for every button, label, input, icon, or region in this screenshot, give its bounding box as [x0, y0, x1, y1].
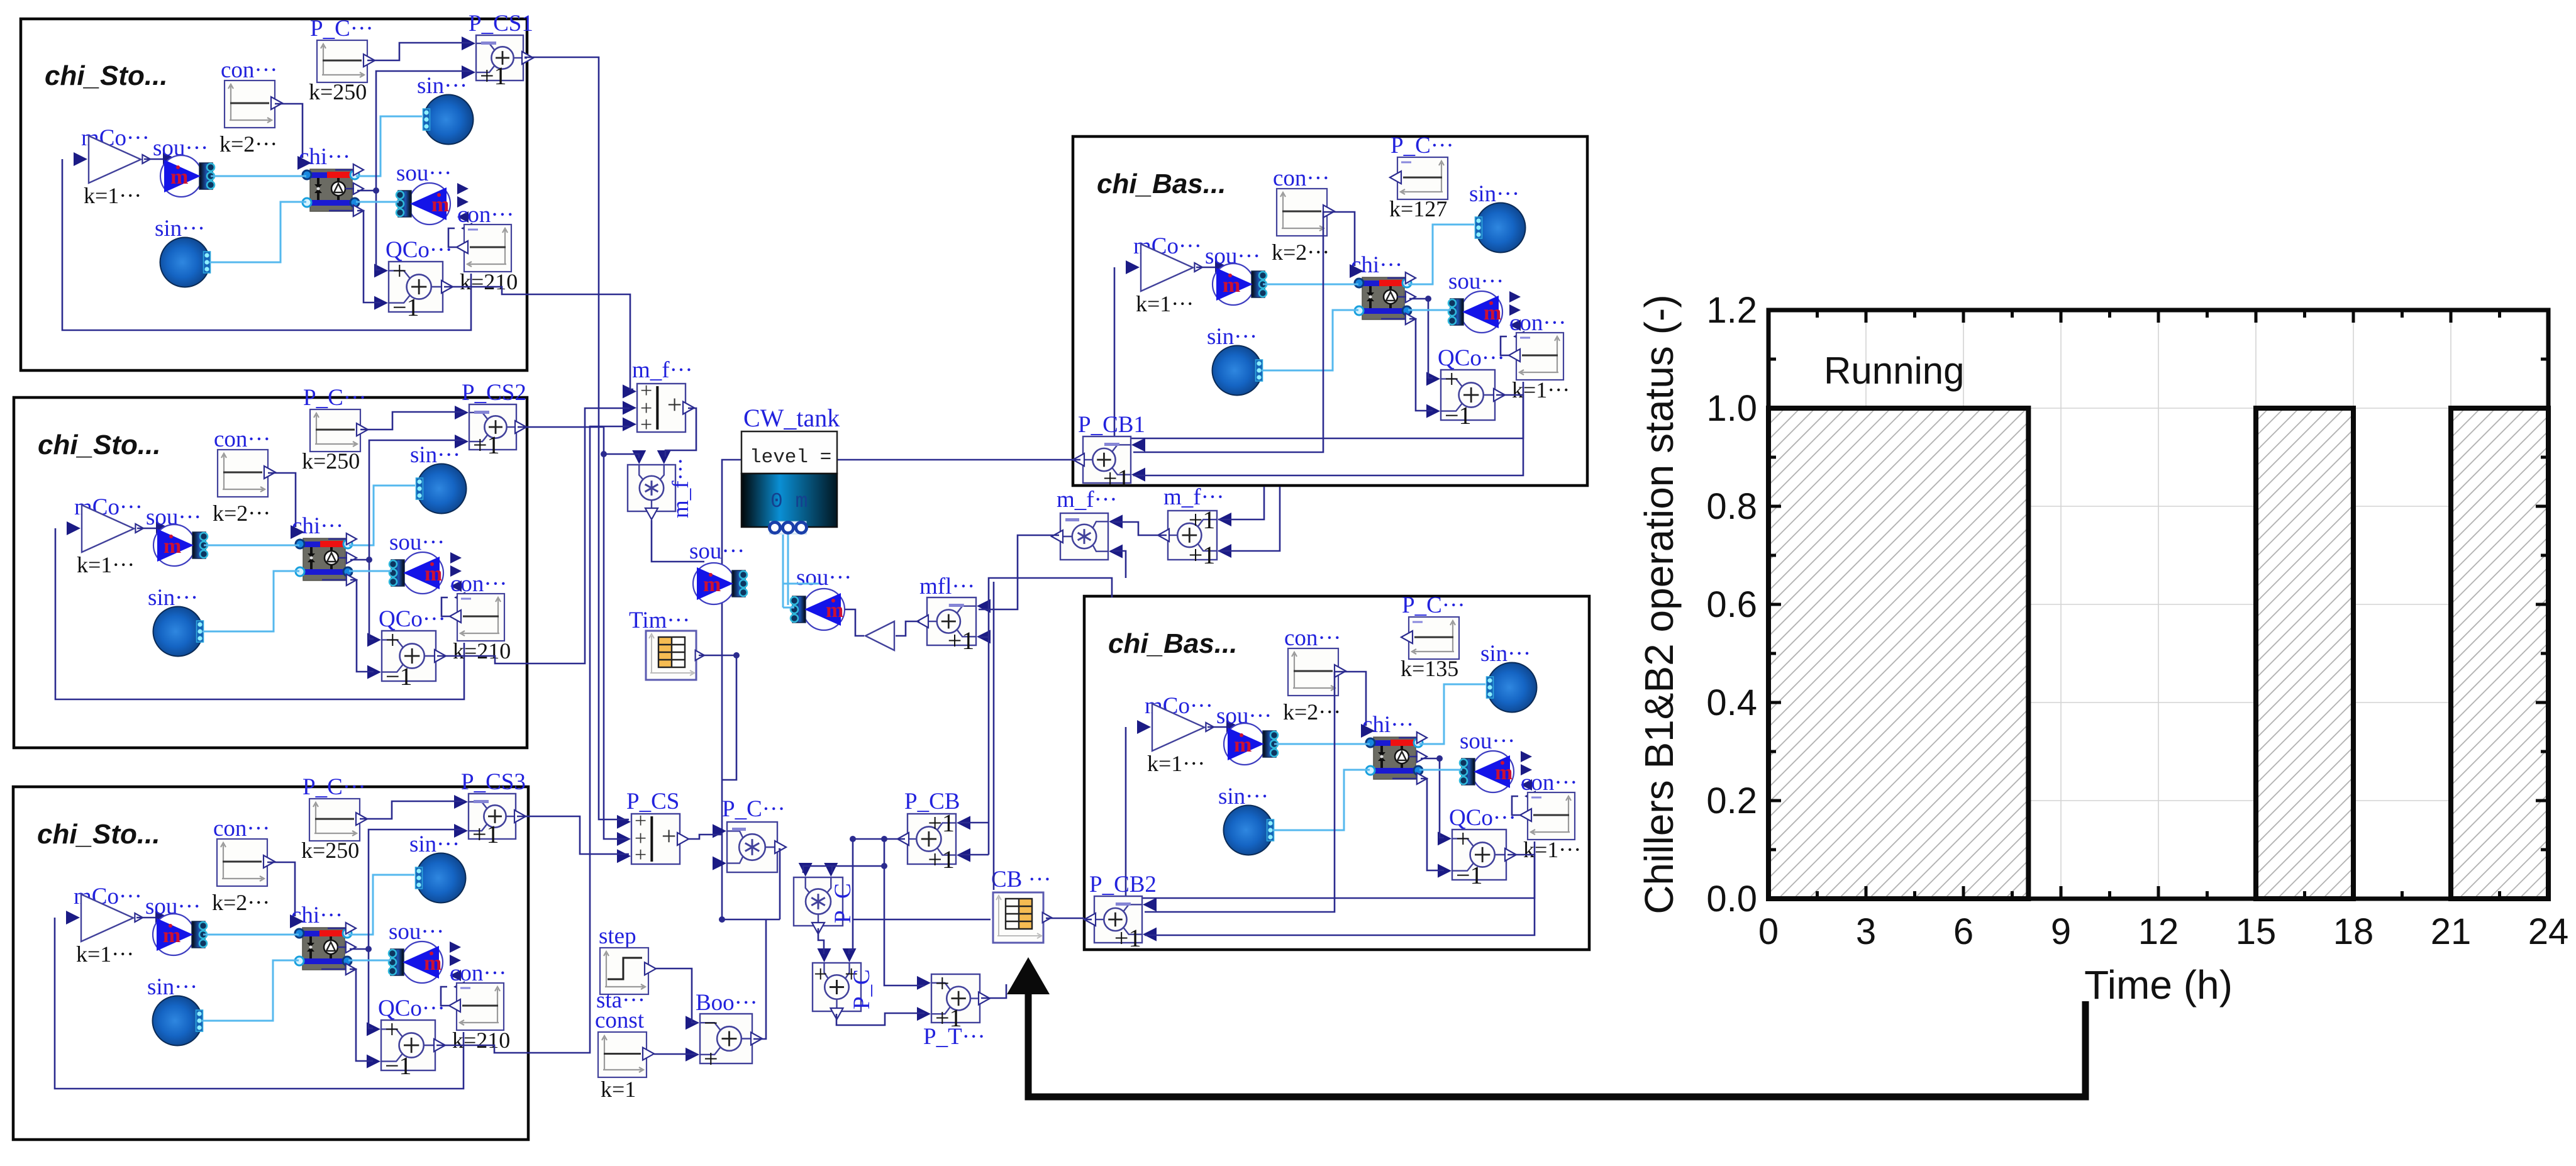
subsystem frame P_CS1: [21, 19, 527, 370]
wire chi to adder: [369, 440, 465, 560]
fluid tank down pipe: [782, 535, 784, 608]
svg-text:m: m: [163, 924, 180, 947]
svg-text:sou···: sou···: [689, 538, 745, 564]
svg-text:P_CS3: P_CS3: [461, 769, 526, 795]
svg-text:k=250: k=250: [301, 838, 359, 863]
svg-text:P_C···: P_C···: [310, 16, 374, 42]
svg-text:−1: −1: [1456, 861, 1483, 889]
svg-text:k=2···: k=2···: [219, 131, 277, 157]
wire P_C6 out to P_C7: [818, 928, 824, 954]
wire con to chi: [1338, 672, 1366, 726]
svg-text:+1: +1: [948, 626, 975, 655]
svg-text:Time (h): Time (h): [2084, 962, 2233, 1008]
fluid wire pump to chi: [1263, 284, 1358, 286]
gain triangle (flow reverse): [865, 621, 894, 650]
svg-text:k=2···: k=2···: [1283, 699, 1341, 725]
svg-text:con···: con···: [450, 571, 507, 597]
svg-text:k=127: k=127: [1389, 196, 1447, 221]
svg-text:con···: con···: [1284, 625, 1341, 651]
svg-text:0: 0: [1758, 911, 1779, 952]
fluid wire chi to sin: [1408, 225, 1474, 284]
wire P_C to adder: [367, 43, 472, 60]
svg-text:k=2···: k=2···: [1272, 240, 1330, 265]
annotation arrow: [1028, 991, 2085, 1097]
wire feedback loop: [55, 528, 464, 699]
wire P_C5 out down: [779, 849, 780, 919]
fluid wire pump to chi: [1274, 743, 1370, 745]
svg-text:+: +: [935, 969, 950, 997]
wire con2 to sou2: [1501, 336, 1509, 355]
svg-text:k=1···: k=1···: [84, 183, 142, 208]
wire P_CS out to P_C5: [689, 835, 722, 839]
wire mCo to pump sou: [144, 158, 167, 160]
svg-text:9: 9: [2051, 911, 2071, 952]
wire con to adder: [1145, 672, 1338, 912]
wire con to chi: [268, 473, 296, 527]
svg-text:k=210: k=210: [453, 638, 511, 664]
svg-text:k=1···: k=1···: [77, 552, 135, 577]
svg-text:−: −: [704, 1009, 718, 1037]
wire QCo out: [436, 1045, 528, 1053]
fluid wire pump to chi: [203, 934, 299, 936]
chart bars hatched: [1768, 408, 2028, 899]
svg-text:chi···: chi···: [299, 144, 350, 170]
wire mCo to pump sou: [1196, 267, 1219, 269]
fluid wire pump sou3 to tank line: [783, 583, 819, 585]
wire P_CS2 to P_CS: [527, 427, 629, 839]
wire chi outputs to QCo: [357, 190, 376, 192]
fluid wire chi to sou2: [356, 201, 399, 203]
wire feedback loop: [1114, 267, 1523, 438]
wire chi outputs to QCo: [350, 948, 369, 950]
fluid wire chi to sin: [348, 875, 414, 935]
svg-text:con···: con···: [1273, 165, 1330, 191]
wire m_f4 to m_f3: [1112, 522, 1167, 535]
wire feedback loop: [1126, 727, 1535, 898]
wire adder out: [517, 816, 528, 818]
wire sum m_f to product: [665, 408, 696, 457]
wire chi to adder: [376, 71, 472, 191]
wire chi outputs to QCo: [1421, 758, 1440, 760]
wire P_T out: [981, 984, 1006, 998]
svg-text:m: m: [431, 193, 449, 216]
svg-text:sou···: sou···: [1448, 269, 1504, 294]
wire con to chi: [275, 104, 303, 158]
wire into product left input: [604, 454, 639, 458]
svg-text:chi_Bas...: chi_Bas...: [1097, 169, 1226, 199]
wire riser to P_CB inputs: [988, 637, 990, 855]
svg-text:chi_Sto...: chi_Sto...: [45, 60, 168, 91]
svg-text:Running: Running: [1824, 350, 1965, 392]
svg-text:+1: +1: [1114, 924, 1141, 952]
svg-text:k=1···: k=1···: [1147, 751, 1205, 776]
svg-text:chi_Bas...: chi_Bas...: [1108, 628, 1237, 659]
svg-text:k=250: k=250: [302, 448, 360, 474]
svg-text:k=1···: k=1···: [76, 941, 134, 967]
wire mfl bottom input riser: [979, 578, 1112, 637]
fluid wire sin2 to chi: [202, 960, 299, 1021]
svg-text:+: +: [386, 626, 400, 654]
svg-text:CW_tank: CW_tank: [743, 404, 840, 432]
svg-text:chi_Sto...: chi_Sto...: [37, 819, 160, 850]
svg-text:+1: +1: [928, 845, 955, 874]
svg-text:m: m: [164, 535, 181, 558]
svg-text:chi···: chi···: [1351, 252, 1402, 278]
chart frame: [1768, 310, 2548, 899]
fluid wire chi to sou2: [1419, 769, 1462, 771]
svg-text:15: 15: [2236, 911, 2277, 952]
svg-text:con···: con···: [214, 426, 270, 452]
fluid wire chi to sin: [1419, 684, 1485, 744]
svg-text:+1: +1: [472, 820, 499, 848]
svg-text:m: m: [1234, 733, 1252, 757]
svg-text:m: m: [170, 165, 188, 189]
subsystem frame P_CS3: [13, 787, 528, 1140]
svg-text:12: 12: [2138, 911, 2179, 952]
wire QCo out: [444, 287, 527, 294]
wire con2 to sou2: [441, 987, 449, 1006]
svg-text:m: m: [1223, 274, 1240, 297]
wire con to adder: [1133, 212, 1327, 452]
svg-text:+1: +1: [480, 62, 507, 90]
svg-text:+: +: [662, 823, 677, 852]
svg-text:6: 6: [1953, 911, 1974, 952]
svg-text:m_f···: m_f···: [1057, 487, 1118, 513]
svg-text:+: +: [667, 391, 682, 420]
svg-text:CB ···: CB ···: [991, 867, 1052, 892]
svg-text:3: 3: [1856, 911, 1876, 952]
svg-text:1.0: 1.0: [1706, 388, 1757, 429]
wire m_f4 right inputs: [1218, 487, 1264, 519]
wire const to Boo: [654, 1053, 697, 1055]
wire QCo3 to sum m_f: [528, 426, 630, 1053]
svg-text:0.8: 0.8: [1706, 486, 1757, 527]
fluid wire chi to sin: [349, 486, 415, 545]
svg-text:chi···: chi···: [1362, 712, 1414, 738]
svg-text:P_CS1: P_CS1: [469, 11, 533, 36]
svg-text:0.6: 0.6: [1706, 584, 1757, 625]
adder P_C7 (vertical): [813, 963, 861, 1011]
wire chi to adder: [369, 830, 464, 949]
svg-text:+: +: [1445, 365, 1459, 393]
wire adder out: [525, 57, 527, 59]
product m_f2 (vertical): [628, 465, 675, 511]
fluid wire pump to chi: [211, 175, 306, 177]
svg-text:m: m: [826, 599, 843, 622]
wire con2 to sou2: [448, 228, 457, 247]
svg-text:con···: con···: [457, 202, 514, 228]
svg-text:+: +: [635, 843, 647, 867]
svg-text:18: 18: [2333, 911, 2374, 952]
svg-text:level =: level =: [750, 447, 831, 469]
wire feedback loop: [62, 159, 471, 330]
svg-text:P_CB1: P_CB1: [1078, 412, 1145, 438]
svg-text:con···: con···: [1521, 770, 1577, 796]
svg-text:k=1···: k=1···: [1523, 837, 1581, 862]
wire P_C to adder: [360, 801, 464, 819]
svg-text:k=2···: k=2···: [213, 501, 270, 526]
fluid wire sin2 to chi: [203, 571, 299, 631]
fluid wire chi to sou2: [348, 960, 391, 962]
control arrows at pump sou2: [1509, 291, 1521, 303]
fluid wire sin2 to chi: [1273, 770, 1370, 830]
svg-text:1.2: 1.2: [1706, 290, 1757, 331]
fluid wire chi to sou2: [349, 570, 392, 572]
svg-text:+: +: [704, 1045, 718, 1073]
svg-text:0.2: 0.2: [1706, 780, 1757, 821]
svg-text:0.4: 0.4: [1706, 682, 1757, 723]
wire P_CB branch to P_C6: [803, 839, 884, 873]
wire QCo out: [437, 656, 527, 664]
wire step to Boo: [656, 969, 697, 1023]
svg-text:+1: +1: [928, 809, 955, 837]
wire QCo to adder: [1145, 855, 1535, 935]
svg-text:k=210: k=210: [452, 1028, 510, 1053]
svg-text:+: +: [814, 961, 827, 987]
svg-text:m: m: [425, 562, 442, 586]
svg-text:+1: +1: [473, 431, 500, 459]
svg-text:chi···: chi···: [292, 513, 343, 539]
svg-text:sou···: sou···: [796, 565, 852, 591]
svg-text:24: 24: [2528, 911, 2569, 952]
svg-text:const: const: [595, 1008, 645, 1033]
svg-text:con···: con···: [1509, 310, 1566, 336]
svg-text:P_C···: P_C···: [1391, 133, 1454, 158]
wire Boo out to bus: [753, 919, 766, 1039]
svg-text:0 m: 0 m: [770, 490, 808, 513]
wire Tim out: [699, 655, 736, 780]
svg-text:m: m: [424, 952, 441, 975]
svg-text:k=135: k=135: [1401, 656, 1458, 681]
svg-text:chi_Sto...: chi_Sto...: [38, 430, 161, 460]
control arrows at pump sou2: [450, 552, 462, 564]
wire QCo1 to sum m_f: [527, 294, 633, 389]
wire P_CS3 to P_CS: [528, 816, 629, 854]
svg-text:step: step: [599, 923, 636, 949]
wire mCo to pump sou: [136, 917, 159, 919]
svg-text:P_CS2: P_CS2: [462, 380, 526, 406]
svg-text:k=2···: k=2···: [212, 890, 270, 915]
svg-text:+: +: [385, 1015, 399, 1043]
wire adder out: [1084, 919, 1092, 921]
svg-text:P_C···: P_C···: [303, 385, 367, 411]
wire con2 to sou2: [441, 597, 450, 616]
svg-text:sou···: sou···: [389, 530, 445, 555]
svg-text:Tim···: Tim···: [629, 608, 690, 633]
wire feedback loop: [55, 918, 464, 1089]
svg-text:−1: −1: [386, 662, 413, 691]
svg-text:k=210: k=210: [460, 269, 518, 294]
chart ticks: [1768, 310, 2548, 899]
svg-text:P_CB2: P_CB2: [1089, 872, 1157, 897]
product P_C6 (vertical): [794, 877, 843, 926]
subsystem frame P_CB2x: [1084, 596, 1589, 950]
fluid wire sin2 to chi: [209, 202, 306, 262]
svg-text:m: m: [1495, 761, 1513, 784]
wire riser to CB: [993, 582, 995, 890]
svg-text:+1: +1: [1189, 506, 1216, 534]
wire QCo2 to sum m_f: [527, 408, 630, 664]
svg-text:m: m: [1484, 301, 1501, 325]
wire product to pump sou3: [652, 520, 704, 562]
svg-text:+: +: [640, 413, 652, 436]
svg-text:−1: −1: [385, 1052, 412, 1080]
subsystem frame P_CS2: [14, 397, 527, 748]
svg-text:m: m: [703, 573, 721, 596]
wire P_C7 to P_T: [836, 1013, 924, 1025]
svg-text:P_C···: P_C···: [722, 796, 786, 822]
wire CB to P_CB2: [1046, 918, 1084, 919]
wire m_f3 out to mfl input: [979, 535, 1059, 609]
wire P_CS1 to P_CS: [525, 57, 629, 819]
fluid wire pump to chi: [204, 545, 299, 547]
svg-text:chi···: chi···: [291, 902, 343, 928]
wire gain to mfl out: [896, 621, 919, 636]
svg-text:k=1···: k=1···: [1136, 291, 1194, 316]
svg-text:sou···: sou···: [396, 160, 452, 186]
wire mCo to pump sou: [1207, 726, 1230, 728]
wire P_CB1 out long: [722, 460, 1073, 919]
wire adder out: [1073, 459, 1080, 461]
wire con to chi: [267, 862, 295, 916]
svg-text:sou···: sou···: [1460, 728, 1515, 754]
svg-text:0.0: 0.0: [1706, 879, 1757, 919]
subsystem frame P_CB1: [1073, 136, 1587, 486]
wire chi outputs to QCo: [1409, 298, 1428, 300]
wire junction to P_T: [884, 866, 924, 986]
svg-text:P_C: P_C: [849, 969, 875, 1009]
wire con to chi: [1327, 212, 1355, 266]
wire chi outputs to QCo: [350, 559, 369, 561]
wire QCo to adder: [1133, 395, 1523, 475]
svg-text:−1: −1: [1445, 401, 1472, 430]
svg-text:sou···: sou···: [389, 919, 444, 945]
svg-text:P_C···: P_C···: [303, 774, 366, 800]
wire P_C to adder: [360, 412, 465, 430]
svg-text:k=1: k=1: [601, 1077, 636, 1102]
wire pump sou4 to gain: [845, 609, 864, 636]
fluid wire sin2 to chi: [1262, 310, 1358, 370]
chart gridlines: [1768, 310, 2548, 899]
svg-text:P_C···: P_C···: [1402, 592, 1465, 618]
wire P_CB out junction: [853, 838, 905, 840]
svg-text:+1: +1: [1189, 541, 1216, 569]
svg-text:con···: con···: [221, 57, 277, 83]
control arrows at pump sou2: [1521, 751, 1532, 762]
adder P_T: [931, 974, 980, 1023]
svg-text:con···: con···: [450, 960, 506, 986]
svg-text:m_f···: m_f···: [668, 457, 694, 518]
svg-text:21: 21: [2431, 911, 2472, 952]
wire m_f3 bottom input: [1112, 551, 1126, 578]
control arrows at pump sou2: [450, 941, 461, 953]
svg-text:−1: −1: [392, 293, 419, 321]
svg-text:k=250: k=250: [309, 79, 367, 104]
svg-text:k=1···: k=1···: [1512, 377, 1570, 403]
svg-text:+: +: [1456, 825, 1470, 853]
control arrows at pump sou2: [457, 183, 469, 194]
svg-text:P_T···: P_T···: [923, 1024, 985, 1050]
wire con2 to sou2: [1512, 796, 1520, 815]
fluid wire chi to sou2: [1408, 309, 1451, 311]
svg-text:mfl···: mfl···: [919, 574, 975, 599]
fluid wire chi to sin: [356, 116, 422, 176]
wire adder out: [518, 426, 527, 428]
svg-text:con···: con···: [213, 816, 270, 841]
wire mCo to pump sou: [137, 528, 160, 530]
svg-text:Chillers B1&B2 operation statu: Chillers B1&B2 operation status (-): [1636, 294, 1682, 914]
svg-text:+: +: [392, 257, 407, 285]
